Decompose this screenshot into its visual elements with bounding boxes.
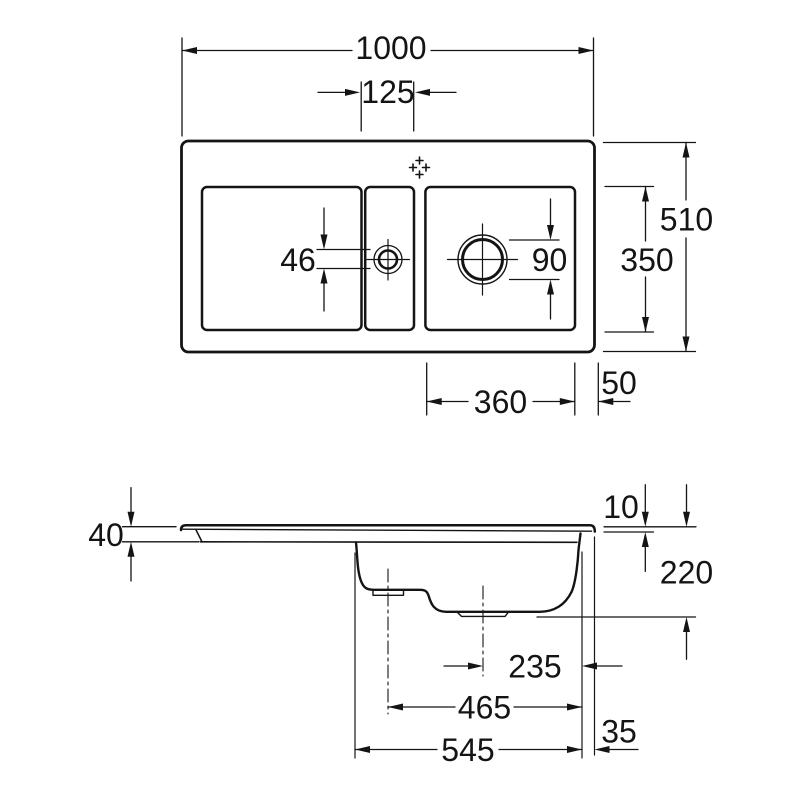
dimension 510 line: [685, 143, 687, 352]
rim front slant edge: [196, 530, 202, 542]
svg-text:1000: 1000: [355, 30, 426, 66]
svg-text:220: 220: [660, 555, 713, 591]
rim underside line: [201, 541, 578, 544]
drainer board outline: [202, 187, 362, 330]
svg-text:350: 350: [620, 242, 673, 278]
dimension 350 extension lines: [605, 187, 654, 333]
extension line bowl right wall: [581, 552, 583, 758]
dimension 90 lines: [510, 240, 560, 280]
dimension 360 line: [427, 401, 575, 403]
dimension 510 arrows: [683, 143, 690, 352]
svg-text:510: 510: [660, 202, 713, 238]
sink outer outline (top view): [182, 141, 595, 352]
svg-text:465: 465: [458, 690, 511, 726]
dimension 360 arrows: [427, 398, 575, 405]
dimension 40 extension lines: [123, 527, 200, 542]
dimension 35 arrow: [609, 749, 638, 751]
svg-text:90: 90: [532, 242, 568, 278]
dimension 545 line: [355, 749, 582, 751]
dimension 90 arrows: [550, 199, 552, 319]
svg-text:235: 235: [508, 649, 561, 685]
dimension 10 arrows: [644, 485, 646, 572]
worktop rim top line (section view): [181, 525, 595, 531]
rim under-edge line: [183, 529, 592, 531]
svg-text:10: 10: [603, 489, 639, 525]
bowl section profile: [356, 534, 581, 612]
dimension 1000 extension lines: [182, 38, 594, 136]
svg-text:545: 545: [441, 732, 494, 768]
tap hole (main bowl): [458, 235, 507, 284]
main drain flange: [457, 612, 509, 616]
dimension 220 arrows: [686, 485, 688, 660]
dimension 360 extension lines: [427, 363, 575, 415]
dimension 350 line: [645, 187, 647, 333]
main bowl outline (top view): [425, 187, 575, 330]
main drain centerline: [482, 586, 484, 676]
dimension 545 arrows: [355, 746, 582, 753]
svg-text:125: 125: [361, 74, 414, 110]
svg-text:35: 35: [601, 714, 637, 750]
extension line sink right edge: [594, 537, 596, 755]
svg-text:50: 50: [601, 365, 637, 401]
middle tray outline: [365, 187, 414, 330]
dimension 46 lines: [317, 250, 370, 269]
dimension 10 extension lines: [604, 527, 696, 532]
dimension 1000 arrows: [182, 47, 594, 54]
dimension 50 extension line: [597, 363, 599, 415]
svg-text:360: 360: [474, 384, 527, 420]
svg-text:46: 46: [280, 242, 316, 278]
dimension 125 extension lines: [361, 82, 414, 131]
dimension 465 line: [388, 706, 582, 708]
dimension 350 arrows: [642, 187, 649, 333]
svg-text:40: 40: [88, 517, 124, 553]
left drain flange: [373, 590, 404, 595]
dimension 220 bottom extension line: [537, 616, 696, 618]
dimension 1000 line: [182, 50, 594, 52]
dimension 465 arrows: [388, 704, 582, 711]
dimension 125 arrows: [318, 91, 346, 93]
dimension 235 arrows: [444, 665, 468, 667]
small drain hole (middle tray): [374, 246, 402, 274]
dimension 50 arrow: [598, 401, 630, 403]
mounting cross symbol: [410, 157, 430, 178]
left drain centerline: [387, 569, 389, 714]
dimension 40 arrows: [130, 488, 132, 581]
extension line bowl left wall: [354, 553, 356, 758]
dimension 46 arrows: [323, 208, 325, 311]
dimension 510 extension lines: [604, 143, 696, 352]
